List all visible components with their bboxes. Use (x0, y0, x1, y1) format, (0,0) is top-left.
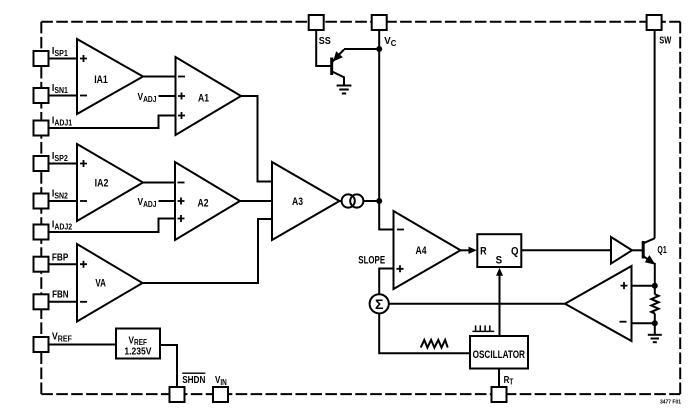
pin FBN (34, 294, 49, 309)
VREF 1.235V box (116, 329, 160, 359)
svg-text:IA2: IA2 (95, 178, 109, 190)
wire Q2 emitter to VC line (344, 48, 379, 50)
op-amp A1 (176, 57, 242, 135)
wire A4 output to RS latch (461, 249, 470, 251)
plus sign comparator (621, 282, 628, 289)
svg-text:SW: SW (659, 36, 671, 47)
svg-text:VIN: VIN (215, 375, 227, 387)
junction dot VC/SS (376, 46, 382, 52)
svg-text:VA: VA (95, 278, 106, 290)
wire IA2 output to A2 (143, 182, 175, 184)
svg-text:A3: A3 (292, 196, 303, 208)
arrowhead S input (496, 268, 503, 276)
svg-text:FBN: FBN (52, 290, 69, 301)
op-amp VA (77, 244, 143, 322)
plus sign A1 mid (178, 93, 185, 100)
plus sign IA2 (80, 160, 87, 167)
minus sign comparator (620, 321, 627, 323)
svg-text:ISN1: ISN1 (52, 83, 68, 95)
op-amp IA2 (77, 144, 143, 221)
plus sign IA1 (80, 55, 87, 62)
wire sigma to A4 plus input (379, 269, 393, 295)
op-amp IA1 (77, 39, 143, 114)
ground (soft-start) (337, 86, 352, 94)
wire ISP1 to IA1 (49, 58, 78, 60)
svg-text:ISP1: ISP1 (52, 46, 68, 58)
wire SW line to Q1 collector (654, 30, 656, 239)
minus sign IA2 (80, 200, 87, 202)
wire IA1 output to A1 (143, 76, 176, 78)
pin FBP (34, 257, 49, 272)
minus sign VA (80, 301, 87, 303)
svg-text:R: R (480, 245, 487, 257)
op-amp A4 (394, 211, 461, 289)
wire A3 output to current source (340, 200, 343, 202)
plus sign A2 low (178, 215, 185, 222)
wire Q output to driver (521, 249, 611, 251)
svg-text:Σ: Σ (375, 296, 383, 312)
wire VADJ stub to A2 (159, 200, 176, 202)
plus sign A1 low (178, 112, 185, 119)
svg-text:ISP2: ISP2 (52, 151, 68, 163)
driver buffer (611, 237, 632, 264)
wire sigma to oscillator (379, 313, 470, 353)
pin ISP2 (34, 156, 49, 171)
wire sigma to comparator output (389, 303, 565, 305)
overline SHDN (182, 372, 205, 374)
svg-text:A2: A2 (198, 197, 209, 209)
svg-text:IADJ1: IADJ1 (52, 115, 73, 127)
transistor Q2 (soft-start PNP) (332, 50, 344, 86)
junction dot resistor bottom (652, 320, 658, 326)
wire VREF box to SHDN pin (160, 345, 177, 387)
svg-text:S: S (496, 255, 503, 267)
pin RT (492, 387, 507, 402)
svg-text:RT: RT (504, 375, 514, 387)
plus sign A4 (397, 265, 404, 272)
minus sign A4 (397, 229, 404, 231)
wire ISP2 to IA2 (49, 163, 78, 165)
ramp waveform icon (421, 340, 448, 348)
transistor Q1 (NPN power switch) (632, 238, 655, 264)
op-amp A2 (175, 162, 240, 240)
ground (sense resistor) (648, 335, 662, 342)
pin SS (309, 15, 324, 30)
svg-text:Q1: Q1 (657, 245, 667, 256)
wire VADJ stub to A1 (159, 95, 176, 97)
wire A2 output to A3 (240, 200, 272, 202)
plus sign A2 mid (178, 198, 185, 205)
pin IADJ1 (34, 121, 49, 136)
svg-text:VREF: VREF (52, 332, 72, 344)
svg-text:OSCILLATOR: OSCILLATOR (473, 349, 525, 361)
wire ISN1 to IA1 (49, 95, 78, 97)
wire current source to VC line (363, 200, 379, 202)
svg-text:A4: A4 (416, 245, 428, 257)
arrowhead A4 to R input (469, 247, 477, 254)
minus sign A1 (178, 76, 185, 78)
resistor (sense) (651, 294, 658, 313)
svg-text:A1: A1 (198, 92, 209, 104)
wire oscillator to S input (499, 275, 501, 336)
RS latch box (477, 234, 521, 267)
svg-text:3477 F01: 3477 F01 (660, 400, 681, 406)
svg-text:IADJ2: IADJ2 (52, 219, 73, 231)
comparator (current sense) (565, 266, 632, 341)
clock waveform icon (472, 325, 494, 331)
oscillator box (470, 336, 528, 369)
op-amp A3 (272, 162, 340, 240)
svg-text:SS: SS (319, 36, 331, 47)
wire VREF pin to VREF box (49, 344, 117, 346)
wire FBP to VA (49, 263, 78, 265)
pin SW (647, 15, 662, 30)
pin VREF (34, 337, 49, 352)
pin IADJ2 (34, 225, 49, 240)
svg-text:SLOPE: SLOPE (358, 254, 385, 266)
current source symbol (342, 194, 355, 207)
plus sign VA (80, 261, 87, 268)
wire ISN2 to IA2 (49, 200, 78, 202)
svg-text:FBP: FBP (52, 252, 69, 263)
svg-text:VADJ: VADJ (138, 92, 157, 104)
svg-text:SHDN: SHDN (182, 375, 205, 386)
wire SS pin to Q2 base (316, 30, 331, 66)
pin VC (372, 15, 387, 30)
wire A1 output to A3 (241, 96, 272, 182)
minus sign A2 (178, 182, 185, 184)
dashed border left (40, 22, 42, 394)
pin VIN (213, 387, 228, 402)
svg-text:1.235V: 1.235V (124, 346, 151, 357)
wire IADJ1 to A1 (49, 116, 176, 129)
dashed border top (41, 21, 680, 23)
dashed border bottom (41, 393, 680, 395)
wire IADJ2 to A2 (49, 219, 176, 233)
wire comparator plus input (632, 285, 655, 287)
wire VC line vertical (379, 30, 393, 230)
summing node sigma (370, 294, 389, 313)
wire Q1 emitter to resistor node (654, 263, 656, 294)
junction dot emitter sense (652, 283, 658, 289)
wire resistor to ground node (654, 313, 656, 334)
dashed border right (679, 22, 681, 394)
pin SHDN (170, 387, 185, 402)
junction dot A3 output (376, 198, 382, 204)
svg-text:VADJ: VADJ (138, 197, 157, 209)
minus sign IA1 (80, 95, 87, 97)
svg-text:ISN2: ISN2 (52, 188, 68, 200)
wire FBN to VA (49, 301, 78, 303)
pin ISN2 (34, 194, 49, 209)
svg-text:Q: Q (511, 245, 519, 257)
svg-text:IA1: IA1 (94, 74, 108, 86)
wire comparator minus input (632, 322, 655, 324)
pin ISN1 (34, 88, 49, 103)
wire VA output to A3 (143, 219, 273, 283)
wire oscillator to RT pin (498, 369, 500, 388)
pin ISP1 (34, 51, 49, 66)
svg-text:VC: VC (384, 36, 396, 48)
